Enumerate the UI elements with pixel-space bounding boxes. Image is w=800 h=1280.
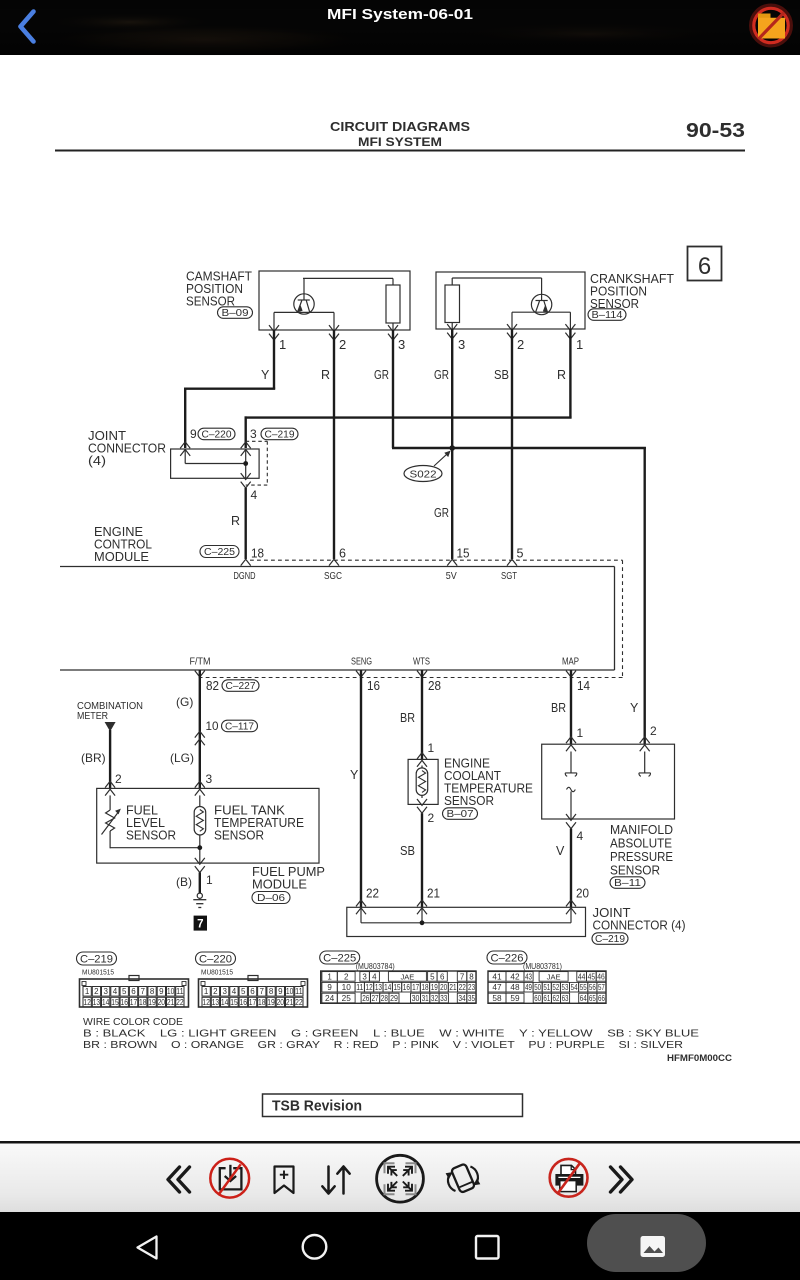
wire GR camshaft pin3 to 5V rail	[392, 330, 394, 448]
ECM pin 6 number	[339, 547, 346, 561]
svg-text:B : BLACK LG : LIGHT GREEN: B : BLACK LG : LIGHT GREEN G : GREEN L :…	[83, 1029, 699, 1040]
crankshaft pin 1 chevrons	[565, 324, 575, 339]
svg-text:MAP: MAP	[562, 657, 579, 668]
wire Y 5V rail to MAP sensor pin2	[644, 447, 646, 744]
svg-text:18: 18	[421, 983, 429, 992]
svg-text:TSB Revision: TSB Revision	[272, 1099, 362, 1115]
ECM connector dashed outline C-225/C-227	[196, 560, 623, 677]
svg-text:20: 20	[576, 887, 589, 901]
wire label GR camshaft pin3	[374, 368, 389, 382]
wire label GR crankshaft pin3	[434, 368, 449, 382]
svg-text:19: 19	[148, 998, 156, 1007]
joint pin 20 chevrons	[566, 900, 576, 914]
svg-text:13: 13	[212, 998, 220, 1007]
manifold absolute pressure sensor label	[610, 823, 673, 878]
camshaft sensor resistor	[386, 285, 400, 323]
svg-text:F/TM: F/TM	[190, 657, 211, 668]
wire label Y MAP	[630, 701, 639, 715]
crankshaft emitter rail wire	[512, 312, 570, 329]
svg-text:C–220: C–220	[202, 430, 232, 441]
svg-text:ABSOLUTE: ABSOLUTE	[610, 837, 672, 851]
svg-text:SENSOR: SENSOR	[444, 794, 494, 808]
svg-text:D–06: D–06	[257, 893, 286, 904]
ECM pin 18 chevron	[241, 559, 251, 565]
svg-text:8: 8	[269, 987, 274, 996]
toolbar reorder pages icon	[322, 1167, 349, 1194]
svg-text:SENG: SENG	[351, 657, 372, 668]
crankshaft sensor resistor	[445, 285, 460, 323]
svg-text:4: 4	[251, 488, 258, 502]
svg-text:16: 16	[403, 983, 411, 992]
svg-text:23: 23	[468, 983, 476, 992]
svg-text:15: 15	[111, 998, 119, 1007]
svg-text:44: 44	[578, 972, 586, 981]
MAP pin 4 number	[577, 829, 584, 843]
crankshaft pin 3 number	[458, 337, 465, 352]
svg-text:B–114: B–114	[592, 310, 623, 321]
svg-text:22: 22	[366, 887, 379, 901]
wire BR ECM pin14 to MAP pin1	[570, 670, 572, 744]
camshaft pin 3 chevrons	[388, 325, 398, 340]
svg-text:28: 28	[381, 994, 389, 1003]
camshaft pin 1 number	[279, 337, 286, 352]
svg-text:59: 59	[510, 994, 520, 1003]
ECM pin 28 number	[428, 679, 441, 693]
ECM port name WTS	[413, 657, 430, 668]
svg-text:6: 6	[440, 972, 445, 981]
svg-text:90-53: 90-53	[686, 120, 745, 142]
svg-text:2: 2	[339, 337, 346, 352]
svg-text:15: 15	[230, 998, 238, 1007]
svg-text:12: 12	[202, 998, 210, 1007]
wire label Y camshaft pin1	[261, 368, 270, 382]
svg-text:(B): (B)	[176, 875, 192, 889]
ECM pin 18 number	[251, 547, 264, 561]
figure number 6 box	[688, 247, 722, 281]
svg-text:WIRE COLOR CODE: WIRE COLOR CODE	[83, 1017, 183, 1028]
joint connector (4) upper box	[171, 449, 260, 478]
ECM port name F/TM	[190, 657, 211, 668]
svg-text:13: 13	[375, 983, 383, 992]
combination meter feed arrow	[105, 722, 116, 732]
wire label V MAP	[556, 844, 565, 858]
toolbar next-page icon	[611, 1167, 633, 1192]
ECM port name SGC	[324, 571, 342, 582]
ECM solid box	[60, 567, 615, 671]
svg-text:BR: BR	[551, 701, 566, 715]
ECM pin 16 number	[367, 679, 380, 693]
svg-text:SGT: SGT	[501, 571, 518, 582]
svg-text:C–219: C–219	[80, 953, 113, 965]
svg-text:6: 6	[131, 987, 136, 996]
svg-text:62: 62	[553, 994, 560, 1003]
svg-text:2: 2	[517, 337, 524, 352]
ground reference number 7 box	[194, 916, 207, 931]
ECT pin 2 chevrons	[417, 799, 427, 813]
svg-text:SB: SB	[494, 368, 509, 382]
wire Y ECM pin16 to joint pin22	[360, 670, 362, 907]
svg-text:15: 15	[457, 547, 470, 561]
fuel tank temperature sensor thermistor	[194, 795, 206, 848]
MAP internal transducer squiggle	[567, 787, 576, 819]
ECT pin 1 chevron	[417, 753, 427, 767]
ECM pin 5 number	[517, 547, 524, 561]
toolbar rotate-device icon	[446, 1163, 481, 1192]
svg-text:20: 20	[158, 998, 166, 1007]
wire label Y SENG	[350, 768, 359, 782]
app bar title MFI System-06-01	[327, 6, 473, 23]
connector oval C-219 lower	[592, 933, 628, 945]
svg-text:(LG): (LG)	[170, 751, 194, 765]
camshaft pin 3 number	[398, 337, 405, 352]
svg-text:11: 11	[295, 987, 303, 996]
joint pin 22 number	[366, 887, 379, 901]
wire label GR 5V	[434, 506, 449, 520]
wire label BR WTS	[400, 711, 415, 725]
ECM pin 15 chevron	[447, 559, 457, 565]
svg-text:1: 1	[204, 987, 209, 996]
wire R camshaft pin2 to ECM pin6	[333, 330, 335, 559]
svg-text:(MU803781): (MU803781)	[523, 962, 562, 971]
svg-text:63: 63	[562, 994, 569, 1003]
app title bar background	[0, 0, 800, 56]
svg-text:C–226: C–226	[491, 952, 524, 964]
crankshaft resistor lead	[451, 323, 453, 330]
svg-text:27: 27	[372, 994, 380, 1003]
svg-text:2: 2	[344, 972, 349, 981]
connector oval B-07	[443, 808, 478, 820]
wire GR crankshaft pin3 to ECM pin15	[451, 329, 453, 559]
wire R joint connector pin4 to ECM pin18	[244, 488, 246, 559]
svg-text:2: 2	[94, 987, 99, 996]
svg-text:20: 20	[277, 998, 285, 1007]
svg-text:14: 14	[102, 998, 110, 1007]
svg-text:2: 2	[115, 772, 122, 786]
TSB revision text	[272, 1099, 362, 1115]
toolbar fit-to-screen icon	[377, 1155, 424, 1202]
svg-text:10: 10	[286, 987, 294, 996]
svg-text:SENSOR: SENSOR	[214, 829, 264, 843]
svg-text:7: 7	[260, 987, 265, 996]
svg-text:WTS: WTS	[413, 657, 430, 668]
fuel return junction dot	[197, 845, 202, 850]
svg-text:C–227: C–227	[226, 681, 256, 692]
svg-text:35: 35	[468, 994, 476, 1003]
svg-text:C–219: C–219	[595, 934, 625, 945]
svg-text:C–219: C–219	[265, 430, 295, 441]
svg-text:32: 32	[431, 994, 439, 1003]
wire Y camshaft pin1 to joint connector C-220 pin9	[184, 330, 275, 448]
svg-text:3: 3	[250, 427, 257, 441]
svg-text:11: 11	[356, 983, 364, 992]
svg-text:21: 21	[286, 998, 294, 1007]
wire label R camshaft pin2	[321, 368, 330, 382]
svg-text:MU801515: MU801515	[82, 968, 114, 977]
svg-text:GR: GR	[434, 368, 449, 382]
svg-text:R: R	[557, 368, 566, 382]
nav screenshot icon	[641, 1236, 666, 1257]
svg-text:48: 48	[510, 983, 520, 992]
toolbar print-disabled icon	[550, 1159, 588, 1197]
joint pin 22 chevrons	[356, 900, 366, 914]
ground symbol	[193, 893, 206, 907]
svg-text:C–117: C–117	[225, 722, 254, 733]
wire label (G)	[176, 695, 193, 709]
svg-text:(4): (4)	[88, 454, 106, 468]
svg-text:43: 43	[525, 972, 532, 981]
wire colour code line 2	[83, 1040, 683, 1051]
svg-text:4: 4	[372, 972, 377, 981]
ECM pin 16 chevron	[356, 671, 366, 677]
wire V MAP pin4 to joint pin20	[570, 829, 572, 908]
pin 3 chevrons	[241, 442, 251, 456]
svg-text:21: 21	[167, 998, 175, 1007]
svg-text:64: 64	[580, 994, 587, 1003]
wire SB crankshaft pin2 to ECM pin5	[511, 329, 513, 559]
svg-text:30: 30	[412, 994, 420, 1003]
svg-text:58: 58	[492, 994, 502, 1003]
fuel box pin 1 number	[206, 873, 213, 887]
svg-text:17: 17	[130, 998, 138, 1007]
svg-text:16: 16	[239, 998, 247, 1007]
joint lower internal bar	[361, 907, 571, 923]
wire label BR MAP	[551, 701, 566, 715]
wire label (LG)	[170, 751, 194, 765]
MAP pin 2 chevrons	[640, 737, 650, 752]
svg-text:21: 21	[449, 983, 457, 992]
svg-text:MANIFOLD: MANIFOLD	[610, 823, 673, 837]
svg-text:24: 24	[325, 994, 335, 1003]
svg-text:5: 5	[430, 972, 435, 981]
svg-text:3: 3	[362, 972, 367, 981]
app bar back chevron	[21, 12, 34, 42]
svg-text:65: 65	[589, 994, 596, 1003]
svg-text:2: 2	[650, 724, 657, 738]
svg-text:17: 17	[412, 983, 420, 992]
android navigation bar	[0, 1212, 800, 1280]
svg-text:2: 2	[213, 987, 218, 996]
svg-text:61: 61	[543, 994, 550, 1003]
svg-text:21: 21	[427, 887, 440, 901]
svg-text:8: 8	[150, 987, 155, 996]
svg-text:R: R	[231, 514, 240, 528]
connector pinout C-220	[196, 952, 308, 1007]
svg-text:16: 16	[120, 998, 128, 1007]
joint lower junction dot	[420, 920, 425, 925]
wire BR ECM pin28 to ECT sensor	[421, 670, 423, 759]
svg-text:55: 55	[580, 983, 587, 992]
svg-text:11: 11	[176, 987, 184, 996]
fuel box pin 1 chevrons	[195, 858, 205, 873]
nav home button	[303, 1235, 327, 1259]
node S022 label oval and arrow	[404, 451, 451, 482]
nav recent-apps pill	[587, 1214, 706, 1272]
svg-text:31: 31	[422, 994, 430, 1003]
wire SB ECT to joint pin21	[421, 813, 423, 907]
svg-text:22: 22	[459, 983, 467, 992]
svg-text:20: 20	[440, 983, 448, 992]
crankshaft pin 1 number	[576, 337, 583, 352]
MAP pin 1 chevrons	[566, 737, 576, 752]
svg-text:BR : BROWN O : ORANGE GR: BR : BROWN O : ORANGE GR : GRAY R : RED …	[83, 1040, 683, 1051]
pin 4 number	[251, 488, 258, 502]
camshaft hall-IC transistor Q-cam	[294, 278, 314, 314]
svg-text:19: 19	[267, 998, 275, 1007]
svg-text:10: 10	[206, 719, 219, 733]
wire label (BR)	[81, 751, 106, 765]
page header title CIRCUIT DIAGRAMS	[330, 119, 470, 134]
svg-text:1: 1	[327, 972, 332, 981]
joint connector (4) lower label	[593, 906, 686, 933]
wire colour code line 1	[83, 1029, 699, 1040]
svg-text:5: 5	[241, 987, 246, 996]
connector pinout C-226	[487, 951, 606, 1003]
svg-text:19: 19	[431, 983, 439, 992]
svg-text:46: 46	[597, 972, 605, 981]
svg-text:C–220: C–220	[199, 953, 232, 965]
engine coolant temperature sensor label	[444, 757, 533, 809]
node S022 junction dot	[449, 445, 455, 451]
wire R crankshaft pin1 to joint connector C-219 pin3	[245, 329, 572, 448]
svg-text:4: 4	[577, 829, 584, 843]
svg-text:3: 3	[398, 337, 405, 352]
ECM port name DGND	[234, 571, 256, 582]
connector oval B-11	[610, 877, 645, 889]
svg-text:42: 42	[510, 972, 520, 981]
svg-text:Y: Y	[350, 768, 359, 782]
crankshaft sensor connector oval B-114	[588, 309, 626, 321]
joint connector internal junction dot	[243, 461, 248, 466]
svg-text:DGND: DGND	[234, 571, 256, 582]
svg-text:MFI SYSTEM: MFI SYSTEM	[358, 135, 442, 149]
camshaft position sensor box B-09	[259, 271, 410, 330]
svg-text:4: 4	[232, 987, 237, 996]
crankshaft hall-IC transistor Q-crk	[531, 294, 551, 315]
svg-text:MODULE: MODULE	[94, 550, 149, 564]
toolbar background	[0, 1141, 800, 1212]
svg-text:(BR): (BR)	[81, 751, 106, 765]
toolbar download-disabled icon	[210, 1159, 249, 1198]
svg-text:22: 22	[176, 998, 184, 1007]
MAP pin 4 chevrons	[566, 814, 576, 829]
svg-text:3: 3	[206, 772, 213, 786]
svg-text:SB: SB	[400, 844, 415, 858]
camshaft pin 2 number	[339, 337, 346, 352]
ECM pin 82 number	[206, 679, 219, 693]
ECM pin 82 chevron	[195, 671, 205, 677]
svg-text:B–11: B–11	[614, 878, 642, 889]
svg-text:1: 1	[85, 987, 90, 996]
page header subtitle MFI SYSTEM	[358, 135, 442, 149]
ECM pin 15 number	[457, 547, 470, 561]
svg-text:8: 8	[469, 972, 474, 981]
connector pinout C-219	[77, 952, 189, 1007]
svg-text:S022: S022	[410, 469, 437, 481]
pin 4 chevrons	[241, 473, 251, 488]
svg-text:1: 1	[428, 741, 435, 755]
fuel box pin 2 number	[115, 772, 122, 786]
svg-text:4: 4	[113, 987, 118, 996]
camshaft pin 2 chevrons	[329, 325, 339, 340]
svg-text:R: R	[321, 368, 330, 382]
fuel level sensor symbol	[102, 795, 121, 848]
svg-text:5: 5	[122, 987, 127, 996]
ECM port name MAP	[562, 657, 579, 668]
svg-text:SGC: SGC	[324, 571, 342, 582]
svg-text:7: 7	[197, 919, 203, 931]
ECM pin 6 chevron	[329, 559, 339, 565]
fuel pump module label	[252, 865, 325, 892]
svg-text:B–09: B–09	[222, 308, 250, 319]
svg-text:53: 53	[562, 983, 569, 992]
manifold absolute pressure sensor box B-11	[542, 744, 675, 819]
camshaft top rail wire	[303, 278, 393, 285]
svg-text:17: 17	[249, 998, 257, 1007]
svg-text:29: 29	[390, 994, 398, 1003]
combination meter label	[77, 701, 143, 722]
app bar folder-blocked icon	[751, 6, 791, 46]
5V rail horizontal wire	[392, 447, 646, 449]
camshaft pin 1 chevrons	[269, 325, 279, 340]
fuel box pin 2 chevrons	[105, 781, 115, 795]
crankshaft top rail wire	[452, 278, 541, 294]
svg-text:28: 28	[428, 679, 441, 693]
svg-text:14: 14	[577, 679, 590, 693]
svg-text:14: 14	[384, 983, 392, 992]
svg-text:MFI System-06-01: MFI System-06-01	[327, 6, 473, 23]
svg-text:(MU803784): (MU803784)	[356, 962, 395, 971]
svg-text:C–225: C–225	[204, 547, 235, 558]
svg-text:10: 10	[167, 987, 175, 996]
connector oval C-219 upper	[261, 428, 298, 440]
pin 3 number	[250, 427, 257, 441]
joint pin 20 number	[576, 887, 589, 901]
fuel box pin 3 chevrons	[195, 781, 205, 795]
svg-text:3: 3	[458, 337, 465, 352]
wire colour code heading	[83, 1017, 183, 1028]
wire label (B)	[176, 875, 192, 889]
ECT thermistor	[416, 766, 428, 799]
ECM pin 28 chevron	[417, 671, 427, 677]
camshaft sensor connector oval B-09	[218, 307, 253, 319]
svg-text:B–07: B–07	[447, 809, 475, 820]
fuel box pin 3 number	[206, 772, 213, 786]
toolbar add-bookmark icon	[275, 1167, 294, 1194]
crankshaft position sensor label	[590, 272, 674, 311]
page number 90-53	[686, 120, 745, 142]
svg-text:9: 9	[159, 987, 164, 996]
svg-text:49: 49	[525, 983, 532, 992]
svg-text:1: 1	[576, 337, 583, 352]
svg-text:5V: 5V	[446, 571, 457, 582]
svg-text:9: 9	[190, 427, 197, 441]
fuel level sensor label	[126, 804, 176, 843]
svg-text:7: 7	[141, 987, 146, 996]
header rule	[55, 150, 745, 152]
svg-text:HFMF0M00CC: HFMF0M00CC	[667, 1053, 732, 1064]
svg-text:50: 50	[534, 983, 541, 992]
svg-text:5: 5	[517, 547, 524, 561]
svg-text:22: 22	[295, 998, 303, 1007]
svg-text:C–225: C–225	[323, 952, 356, 964]
joint connector (4) label	[88, 429, 166, 468]
svg-text:13: 13	[93, 998, 101, 1007]
svg-text:MODULE: MODULE	[252, 878, 307, 892]
svg-text:45: 45	[588, 972, 596, 981]
ECM pin 14 chevron	[566, 671, 576, 677]
svg-text:12: 12	[366, 983, 374, 992]
ECM port name SGT	[501, 571, 518, 582]
